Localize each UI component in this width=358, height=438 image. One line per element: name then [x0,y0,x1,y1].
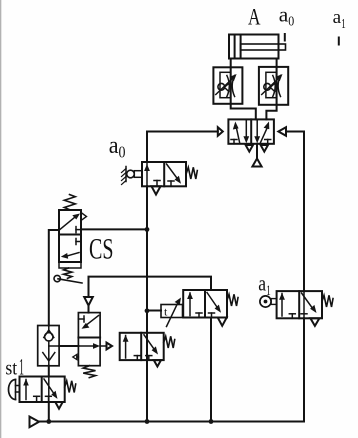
flow control valve FC1 (left) [213,67,242,104]
supply triangle under V1 [252,159,261,167]
svg-text:0: 0 [288,14,294,29]
valve CS 3/2 [54,195,87,284]
wire node to V3 pilot and V5 top [89,277,212,297]
bottom box arrow right [78,345,95,347]
junction dot (147,311) [145,308,150,313]
wire a1 bottom to rail [211,318,304,421]
pilot arrow left of V1 [218,127,223,136]
svg-text:1: 1 [341,16,346,31]
check valve CV1 [38,326,59,366]
supply line under V1 [256,144,258,159]
port arrow V3 output [100,345,106,347]
push button of st1 [9,380,16,400]
exhaust arrow left [77,356,79,358]
valve V4 3/2 [120,333,175,360]
wire pilot branch (t) [147,310,161,312]
wire st1 bottom to rail [48,402,50,422]
junction dot rail x=211 [209,419,214,424]
flow control valve FC2 (right) [259,67,288,105]
wire CV1 to V3 [59,345,78,347]
wire V5 bottom to rail [210,318,212,422]
scan border left edge [0,0,2,438]
left box [231,139,237,141]
svg-text:st: st [5,358,17,380]
wire a0 down to rail [146,186,148,421]
wire V1 right pilot to a1 line [286,132,304,292]
svg-text:t: t [164,305,168,319]
wire V3 pilot stub [88,306,90,313]
junction dot rail x=147 [145,419,150,424]
top box diagonal arrow [60,217,76,230]
spring above CS [64,195,75,210]
valve V5 3/2 (timer) [183,290,238,318]
svg-text:0: 0 [119,143,126,162]
wire CV1 down to st1 [48,366,50,377]
exhaust triangle under a0 [152,186,161,194]
wire V1 left pilot to a0 [147,132,218,163]
spring right of st1 [65,381,76,393]
svg-text:A: A [248,5,261,30]
exhaust triangle under a1 [310,318,319,326]
spring right of a0 [186,167,197,179]
junction dot (147,229) [145,227,150,232]
cylinder A [229,35,286,59]
exhaust triangle under V4 [154,360,161,366]
spring right of V4 [164,336,175,348]
push button valve st1 3/2 [9,377,76,403]
wire st1 through line [48,377,50,403]
exhaust triangle under st1 [55,402,62,409]
junction dot rail x=49 [46,419,51,424]
timer box t [161,298,183,327]
top box blocked T [78,318,84,320]
spring right of V5 [227,294,238,306]
exhaust triangle V1 port 5 [261,145,268,152]
limit valve a0 3/2 roller [122,162,198,186]
detent plate below CS [59,262,81,268]
roller actuator of a1 [260,296,271,307]
marker tick a1 [338,38,340,45]
top box blocked port T [76,229,81,231]
spring right of a1 [322,295,333,307]
roller actuator of a0 [125,167,127,182]
exhaust triangle under V5 [218,318,227,326]
supply triangle at rail [30,417,40,428]
pilot arrow into V3 (top) [84,297,93,306]
wire cylinder left port [231,59,256,120]
roller lever of CS [58,279,82,283]
exhaust triangle V1 port 3 [246,145,253,152]
wire CS left port down [49,230,59,326]
right box [256,121,258,139]
wire cylinder right port [266,59,276,120]
supply rail wire [39,421,304,423]
bottom box arrow left [67,253,79,257]
top box diagonal arrow [87,316,99,325]
pilot valve V3 3/2 [73,313,100,378]
pilot arrow right of V1 [278,127,286,136]
limit valve a1 3/2 [260,291,333,318]
svg-text:CS: CS [89,233,114,266]
svg-text:a: a [109,133,119,159]
wire CS right port to node [81,228,147,230]
bottom box T [76,241,81,243]
spring below CS [64,268,72,278]
svg-text:a: a [258,271,266,296]
spring below V3 [83,366,95,378]
valve V1 5/2 directional valve [228,119,274,143]
marker tick a0 [284,34,286,41]
